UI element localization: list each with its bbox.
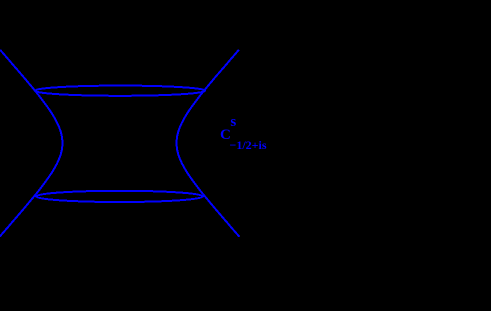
left hyperbola branch	[0, 51, 62, 237]
bottom ellipse	[36, 191, 203, 202]
top ellipse	[35, 86, 205, 96]
label C^s_{-1/2+is}	[220, 127, 231, 144]
right hyperbola branch	[177, 51, 239, 237]
